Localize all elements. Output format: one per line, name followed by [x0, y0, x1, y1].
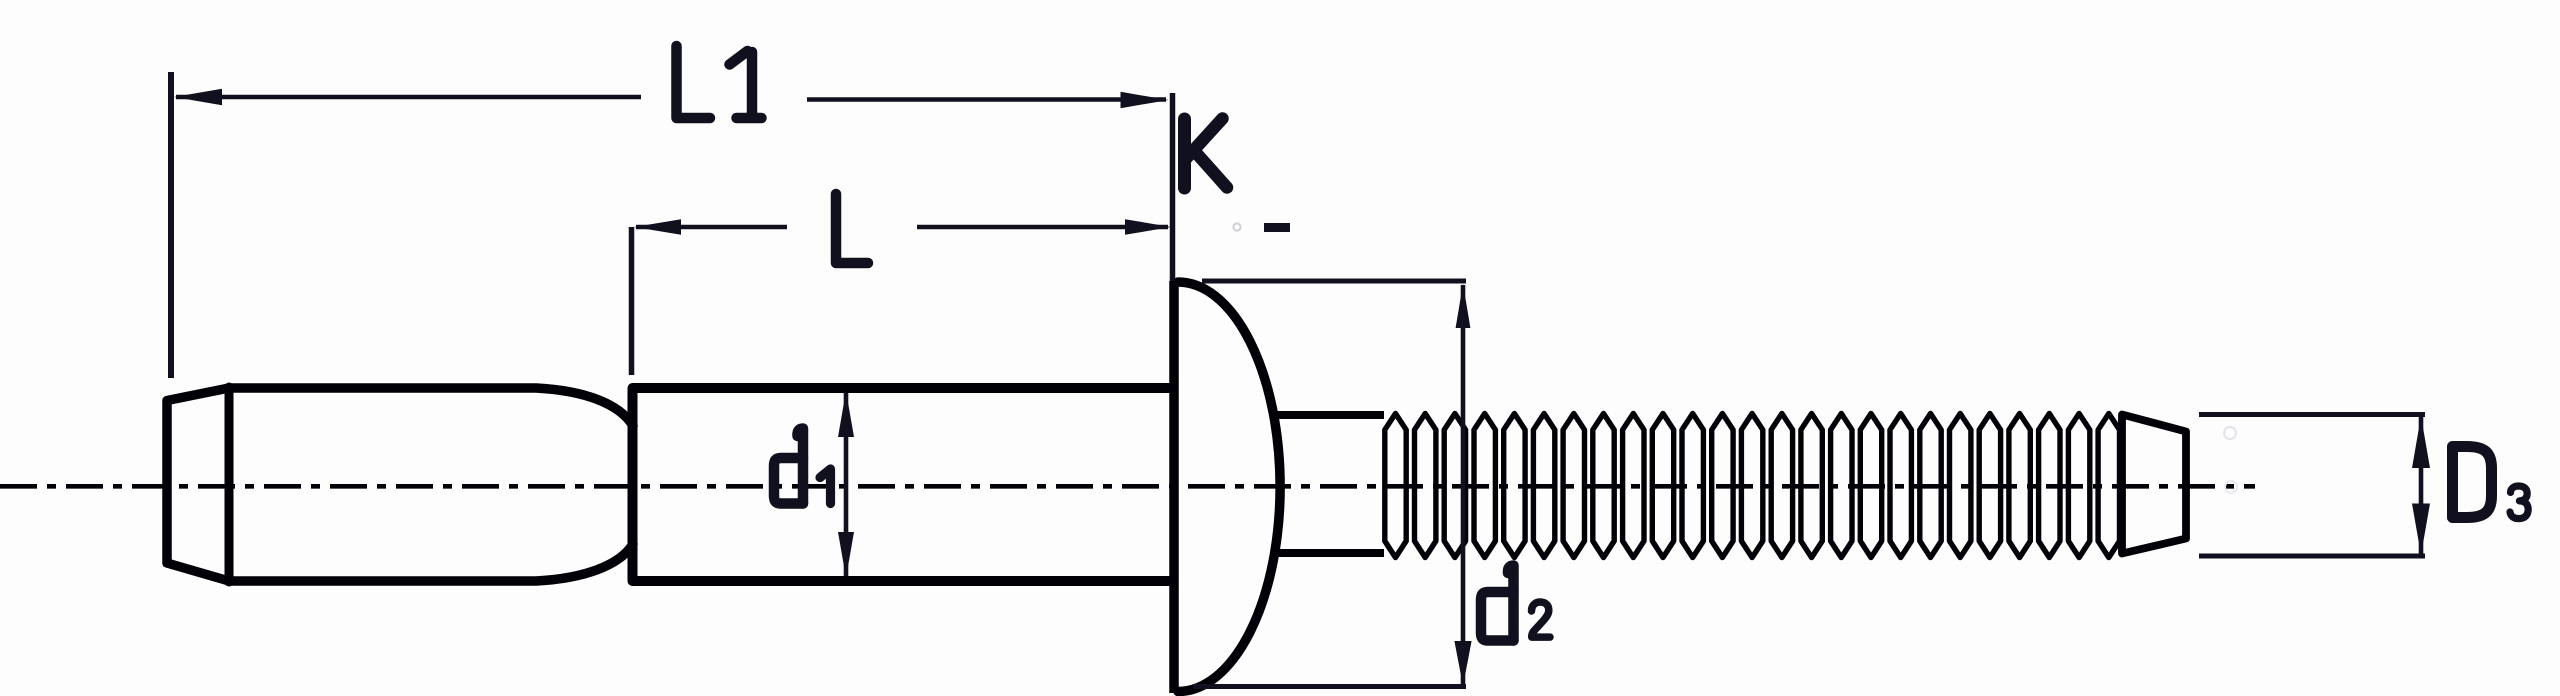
rivet dome head arc — [1178, 282, 1280, 692]
rivet head flat face (thick part of extension) — [1169, 281, 1179, 693]
label L1 — [677, 46, 762, 118]
mandrel tail cap divider line — [225, 387, 234, 582]
L dimension line right segment with arrow — [917, 225, 1168, 230]
L dimension line left segment with arrow — [636, 225, 787, 230]
faint artifact circle near K dash — [1233, 223, 1240, 230]
d2 extension line top — [1202, 279, 1466, 284]
label K — [1185, 119, 1228, 189]
d2 extension line bottom — [1193, 684, 1466, 689]
label L — [836, 194, 868, 263]
L1 dimension line left segment with arrow — [176, 95, 641, 100]
D3 extension line bottom — [2199, 554, 2425, 559]
mandrel smooth shank bottom edge — [1271, 549, 1384, 557]
d1 dimension double arrow — [844, 393, 849, 576]
L extension line (left) — [629, 227, 635, 375]
D3 dimension line with arrows — [2419, 417, 2424, 554]
label d1 — [774, 429, 831, 504]
threaded mandrel shank — [1385, 414, 2120, 558]
D3 extension line top — [2199, 412, 2425, 417]
d2 dimension line with arrows — [1461, 285, 1466, 685]
label d2 — [1481, 566, 1550, 641]
rivet body (d1 cylinder) — [633, 388, 1175, 581]
centerline (dash-dot axis) — [0, 484, 2255, 489]
mandrel break-stem tip cone — [2122, 415, 2186, 554]
K reference dash right of head — [1264, 223, 1290, 232]
mandrel smooth shank top edge — [1271, 411, 1384, 419]
label D3 — [2453, 447, 2529, 519]
faint artifact circles — [2224, 427, 2236, 439]
L1 extension line (left) — [168, 72, 174, 378]
head-face thin extension line above dome — [1170, 93, 1176, 281]
L1 dimension line right segment with arrow — [807, 97, 1166, 102]
rivet mandrel tail bullet (left body) — [167, 388, 633, 581]
